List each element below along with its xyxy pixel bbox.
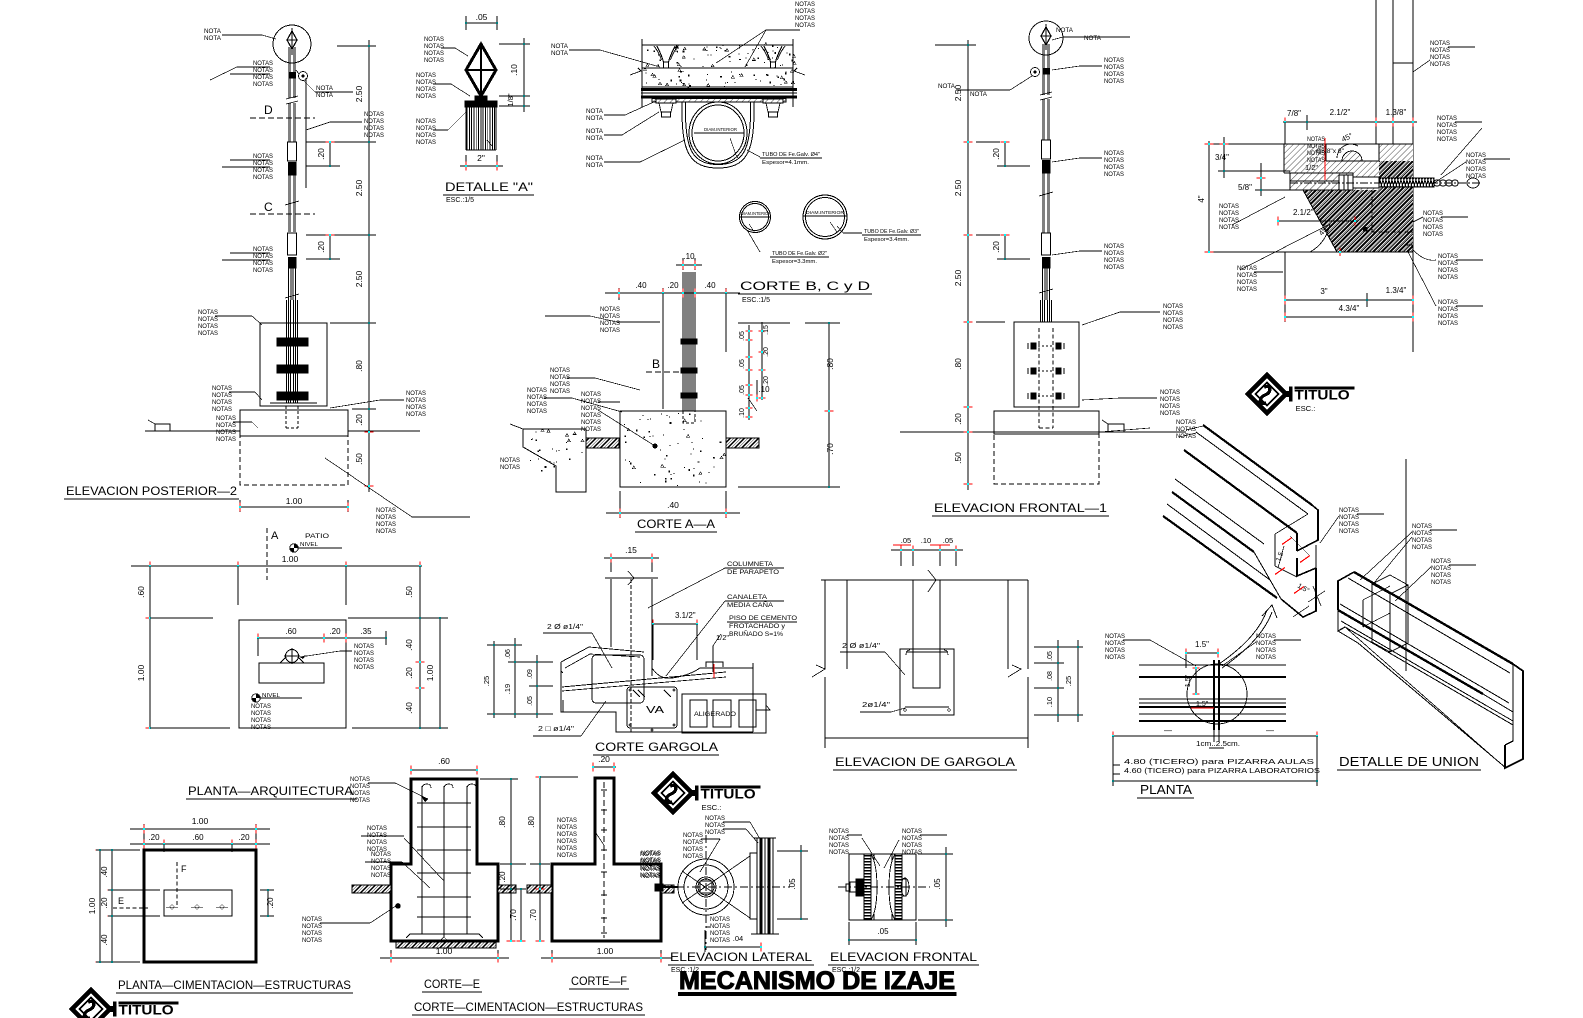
svg-text:1.3/8": 1.3/8" [1386,108,1407,117]
svg-text:NOTAS: NOTAS [371,872,391,879]
svg-text:NOTAS: NOTAS [1339,521,1359,528]
svg-text:NOTAS: NOTAS [902,849,922,856]
CORTE-E foundation section [391,779,498,941]
svg-text:2 Ø ø1/4": 2 Ø ø1/4" [547,622,583,631]
svg-text:VA: VA [646,705,664,716]
svg-text:NOTAS: NOTAS [416,93,436,100]
svg-text:2.50: 2.50 [953,179,963,196]
svg-text:NOTAS: NOTAS [1256,640,1276,647]
svg-text:NOTAS: NOTAS [302,923,322,930]
svg-text:NOTAS: NOTAS [1431,572,1451,579]
svg-text:DIAM.INTERIOR: DIAM.INTERIOR [741,211,771,216]
svg-text:NOTAS: NOTAS [416,125,436,132]
svg-text:NOTAS: NOTAS [1430,40,1450,47]
anchor detail top dims [1283,121,1417,123]
svg-text:TUBO DE Fe.Galv. Ø2": TUBO DE Fe.Galv. Ø2" [772,251,827,257]
svg-text:NOTAS: NOTAS [376,507,396,514]
svg-text:NOTAS: NOTAS [581,391,601,398]
anchor detail left dims [1208,141,1210,252]
svg-text:4": 4" [1197,195,1206,202]
svg-text:NOTAS: NOTAS [641,857,661,864]
svg-text:NOTAS: NOTAS [683,839,703,846]
svg-text:2ø1/4": 2ø1/4" [862,700,890,709]
svg-text:NOTAS: NOTAS [1431,558,1451,565]
svg-text:NOTAS: NOTAS [1105,633,1125,640]
svg-text:NOTAS: NOTAS [500,464,520,471]
CORTE-F foundation section [552,778,661,941]
svg-text:NOTAS: NOTAS [710,937,730,944]
svg-text:NOTAS: NOTAS [1237,265,1257,272]
svg-text:NOTAS: NOTAS [364,111,384,118]
svg-text:CORTE—CIMENTACION—ESTRUCTURAS: CORTE—CIMENTACION—ESTRUCTURAS [414,1002,643,1014]
svg-text:NOTAS: NOTAS [527,387,547,394]
svg-text:NOTA: NOTA [551,50,569,57]
ELEVACION LATERAL pulley [678,859,734,915]
svg-text:NOTAS: NOTAS [1237,286,1257,293]
svg-text:NOTAS: NOTAS [829,828,849,835]
svg-text:E: E [118,896,124,906]
svg-text:NOTAS: NOTAS [350,790,370,797]
svg-text:DIAM.INTERIOR: DIAM.INTERIOR [704,127,737,132]
svg-text:NOTAS: NOTAS [1339,514,1359,521]
svg-text:2 Ø ø1/4": 2 Ø ø1/4" [842,641,880,650]
svg-text:TITULO: TITULO [1295,388,1350,404]
svg-text:NOTAS: NOTAS [1438,267,1458,274]
svg-text:NOTAS: NOTAS [416,79,436,86]
svg-text:NOTAS: NOTAS [1163,324,1183,331]
svg-text:NOTAS: NOTAS [902,835,922,842]
svg-text:.20: .20 [329,627,341,636]
svg-text:NOTA: NOTA [1084,35,1102,42]
svg-text:.15: .15 [763,325,770,335]
svg-text:.20: .20 [498,871,507,883]
svg-text:NOTAS: NOTAS [829,842,849,849]
svg-text:NOTAS: NOTAS [1104,264,1124,271]
svg-text:.50: .50 [404,586,414,598]
svg-text:NOTAS: NOTAS [416,86,436,93]
svg-text:NOTA: NOTA [586,135,604,142]
svg-text:NOTA: NOTA [204,35,222,42]
ELEVACION FRONTAL pulley [849,854,916,920]
svg-text:.40: .40 [635,281,647,290]
svg-text:PLANTA: PLANTA [1140,782,1192,797]
svg-text:F: F [181,864,187,874]
svg-text:NOTAS: NOTAS [829,835,849,842]
svg-text:.20: .20 [238,833,250,842]
svg-text:NOTAS: NOTAS [253,267,273,274]
isometric channel upper [1203,425,1312,505]
svg-text:NOTAS: NOTAS [1160,389,1180,396]
svg-text:NOTAS: NOTAS [216,436,236,443]
svg-text:NOTAS: NOTAS [1160,396,1180,403]
svg-text:NOTAS: NOTAS [795,15,815,22]
svg-text:.05: .05 [527,696,534,706]
svg-text:NOTAS: NOTAS [1437,136,1457,143]
svg-text:.20: .20 [316,241,326,253]
svg-text:CORTE GARGOLA: CORTE GARGOLA [595,740,718,754]
svg-text:3": 3" [1320,287,1327,296]
svg-text:NOTAS: NOTAS [600,327,620,334]
svg-text:NOTAS: NOTAS [251,717,271,724]
svg-text:CORTE—F: CORTE—F [571,974,627,988]
svg-text:NOTAS: NOTAS [641,850,661,857]
svg-text:NOTAS: NOTAS [1423,210,1443,217]
svg-text:NOTAS: NOTAS [253,60,273,67]
svg-text:NOTAS: NOTAS [1412,530,1432,537]
svg-text:NOTAS: NOTAS [424,50,444,57]
svg-text:.08: .08 [1047,671,1054,681]
svg-text:TITULO: TITULO [701,787,756,803]
svg-text:NOTAS: NOTAS [1105,654,1125,661]
svg-text:.80: .80 [953,358,963,370]
svg-text:.05: .05 [901,536,911,545]
svg-text:.20: .20 [991,148,1001,160]
svg-text:NOTAS: NOTAS [376,521,396,528]
svg-text:ELEVACION POSTERIOR—2: ELEVACION POSTERIOR—2 [66,486,237,498]
svg-text:NOTAS: NOTAS [1104,250,1124,257]
svg-text:.80: .80 [497,816,507,828]
svg-text:.10: .10 [1045,697,1054,707]
svg-text:PATIO: PATIO [305,533,329,540]
svg-text:NOTAS: NOTAS [527,408,547,415]
pipe clamp wall section [739,46,740,47]
svg-text:NOTAS: NOTAS [1438,320,1458,327]
svg-text:.80: .80 [526,816,536,828]
svg-text:.10: .10 [739,408,746,418]
svg-text:NOTAS: NOTAS [902,842,922,849]
svg-text:.50: .50 [953,452,963,464]
svg-text:NOTAS: NOTAS [600,306,620,313]
anchor detail hatched block [1284,144,1413,252]
svg-text:.05: .05 [739,359,746,369]
svg-text:NOTAS: NOTAS [829,849,849,856]
ELEVACION DE GARGOLA [891,549,963,551]
svg-text:NOTAS: NOTAS [1438,313,1458,320]
svg-text:NOTAS: NOTAS [550,388,570,395]
svg-text:NOTAS: NOTAS [1105,640,1125,647]
anchor bolt ledge [1290,173,1353,190]
svg-text:NOTAS: NOTAS [406,411,426,418]
svg-text:NOTAS: NOTAS [641,873,661,880]
svg-text:NOTAS: NOTAS [581,398,601,405]
svg-text:.60: .60 [192,833,204,842]
svg-text:2.50: 2.50 [354,179,364,196]
svg-text:NOTAS: NOTAS [1423,231,1443,238]
svg-text:3/4": 3/4" [1215,153,1229,162]
svg-text:.20: .20 [991,241,1001,253]
svg-text:NIVEL: NIVEL [300,542,318,548]
svg-text:3.1/2": 3.1/2" [675,611,696,620]
svg-text:CORTE—E: CORTE—E [424,977,480,991]
svg-text:1.00: 1.00 [192,816,209,826]
svg-text:NOTAS: NOTAS [302,937,322,944]
svg-text:ELEVACION FRONTAL: ELEVACION FRONTAL [830,952,978,964]
svg-text:NOTAS: NOTAS [1437,115,1457,122]
svg-text:.05: .05 [1047,651,1054,661]
svg-text:NOTAS: NOTAS [251,703,271,710]
svg-text:NOTAS: NOTAS [795,1,815,8]
svg-text:NOTAS: NOTAS [1307,137,1325,143]
svg-text:5/8": 5/8" [1238,183,1252,192]
svg-text:NOTAS: NOTAS [253,67,273,74]
svg-text:NOTAS: NOTAS [1466,159,1486,166]
svg-text:2.50: 2.50 [953,269,963,286]
svg-text:.05: .05 [788,878,797,890]
svg-text:NOTAS: NOTAS [683,853,703,860]
svg-text:NOTAS: NOTAS [1466,152,1486,159]
svg-text:DETALLE "A": DETALLE "A" [445,180,533,194]
svg-text:BRUÑADO S=1%: BRUÑADO S=1% [729,629,783,638]
svg-text:.10: .10 [921,536,931,545]
svg-text:NOTAS: NOTAS [557,824,577,831]
svg-text:NOTAS: NOTAS [253,81,273,88]
dimension column frontal-1 [967,40,969,490]
ELEVACION FRONTAL-1 pole elevation [1029,21,1063,55]
svg-text:NOTAS: NOTAS [1104,257,1124,264]
svg-text:NOTAS: NOTAS [1219,203,1239,210]
svg-text:NOTAS: NOTAS [1438,274,1458,281]
svg-text:NOTAS: NOTAS [527,394,547,401]
svg-text:NOTA: NOTA [938,83,956,90]
svg-text:NOTAS: NOTAS [1438,253,1458,260]
svg-text:NOTAS: NOTAS [350,783,370,790]
svg-text:NOTAS: NOTAS [416,132,436,139]
svg-text:COLUMNETA: COLUMNETA [727,561,774,568]
svg-text:NOTAS: NOTAS [253,174,273,181]
svg-text:.09: .09 [527,669,534,679]
svg-text:NOTAS: NOTAS [212,406,232,413]
svg-text:7/8": 7/8" [1287,109,1301,118]
svg-text:NOTAS: NOTAS [1430,47,1450,54]
svg-text:TITULO: TITULO [119,1003,174,1018]
svg-text:1.5": 1.5" [1195,640,1209,649]
svg-text:NOTAS: NOTAS [1412,537,1432,544]
svg-text:NOTA: NOTA [1056,27,1074,34]
svg-text:.20: .20 [354,414,364,426]
svg-text:1/2": 1/2" [1305,163,1318,172]
svg-text:PLANTA—CIMENTACION—ESTRUCTURAS: PLANTA—CIMENTACION—ESTRUCTURAS [118,980,351,992]
svg-text:ELEVACION LATERAL: ELEVACION LATERAL [670,952,813,964]
svg-text:NOTAS: NOTAS [1438,299,1458,306]
svg-text:NOTAS: NOTAS [600,320,620,327]
svg-text:NOTA: NOTA [551,43,569,50]
svg-text:4.3/4": 4.3/4" [1339,304,1360,313]
svg-text:.05: .05 [877,927,889,936]
svg-text:NOTAS: NOTAS [416,139,436,146]
TITULO logo (middle bottom) [654,774,760,812]
svg-text:NOTAS: NOTAS [1104,71,1124,78]
svg-text:.40: .40 [404,702,414,714]
svg-text:.05: .05 [739,331,746,341]
svg-text:NOTAS: NOTAS [1219,217,1239,224]
svg-text:.04: .04 [733,934,743,943]
svg-text:NOTAS: NOTAS [1256,633,1276,640]
svg-text:.15: .15 [625,545,637,555]
svg-text:NOTAS: NOTAS [253,260,273,267]
svg-text:NOTAS: NOTAS [500,457,520,464]
svg-text:NOTAS: NOTAS [550,381,570,388]
svg-text:.80: .80 [354,360,364,372]
svg-text:NOTAS: NOTAS [1176,426,1196,433]
svg-text:.50: .50 [354,453,364,465]
svg-text:Espesor=3.3mm.: Espesor=3.3mm. [772,259,817,265]
CORTE A-A [682,258,684,270]
anchor detail bottom dims [1284,252,1286,322]
svg-text:NOTAS: NOTAS [557,831,577,838]
svg-text:NOTAS: NOTAS [710,923,730,930]
svg-text:NOTAS: NOTAS [367,839,387,846]
svg-text:.20: .20 [266,897,275,909]
svg-text:NOTAS: NOTAS [364,132,384,139]
svg-text:NOTAS: NOTAS [641,866,661,873]
svg-text:.40: .40 [404,639,414,651]
svg-text:NOTAS: NOTAS [198,309,218,316]
svg-text:NOTAS: NOTAS [251,724,271,731]
svg-text:NOTAS: NOTAS [424,43,444,50]
svg-text:.25: .25 [1064,676,1073,686]
svg-text:NOTAS: NOTAS [795,8,815,15]
svg-text:NOTAS: NOTAS [1104,243,1124,250]
svg-text:.20: .20 [100,897,109,909]
svg-text:FROTACHADO y: FROTACHADO y [729,623,786,630]
svg-text:ELEVACION FRONTAL—1: ELEVACION FRONTAL—1 [934,503,1107,515]
svg-text:NOTAS: NOTAS [198,316,218,323]
svg-text:NOTAS: NOTAS [216,422,236,429]
svg-text:NOTAS: NOTAS [795,22,815,29]
svg-text:NOTAS: NOTAS [354,664,374,671]
svg-text:1.00: 1.00 [436,946,453,956]
svg-text:NOTAS: NOTAS [1466,166,1486,173]
svg-text:NOTAS: NOTAS [212,392,232,399]
gargola left dims [493,641,495,718]
svg-text:NOTAS: NOTAS [371,851,391,858]
svg-text:1.00: 1.00 [597,946,614,956]
svg-text:NOTAS: NOTAS [1104,164,1124,171]
svg-text:NOTAS: NOTAS [1431,565,1451,572]
svg-text:NOTAS: NOTAS [581,405,601,412]
svg-text:NOTAS: NOTAS [1339,507,1359,514]
svg-text:NOTAS: NOTAS [406,397,426,404]
svg-text:NOTAS: NOTAS [251,710,271,717]
svg-text:.70: .70 [528,909,538,921]
svg-text:D: D [264,103,273,117]
svg-text:NOTAS: NOTAS [212,399,232,406]
svg-text:NOTAS: NOTAS [416,72,436,79]
svg-text:.19: .19 [503,684,512,694]
svg-text:NOTA: NOTA [316,85,334,92]
svg-text:NOTAS: NOTAS [683,832,703,839]
svg-text:NOTAS: NOTAS [1423,224,1443,231]
svg-text:1/2": 1/2" [716,633,729,642]
svg-text:.20: .20 [404,667,414,679]
svg-text:NOTAS: NOTAS [1237,272,1257,279]
svg-text:1.00: 1.00 [425,664,435,681]
TITULO logo (bottom left corner) [72,990,178,1018]
svg-text:NOTAS: NOTAS [1176,419,1196,426]
sheet border line [1412,0,1414,352]
svg-text:.20: .20 [148,833,160,842]
svg-text:NOTAS: NOTAS [350,776,370,783]
svg-text:NOTAS: NOTAS [1237,279,1257,286]
pipe TUBO 4in [689,102,747,164]
svg-text:NOTAS: NOTAS [1339,528,1359,535]
svg-text:NOTAS: NOTAS [1160,403,1180,410]
svg-text:1.00: 1.00 [282,554,299,564]
svg-text:.40: .40 [100,866,109,878]
svg-text:NOTAS: NOTAS [367,825,387,832]
svg-text:.35: .35 [360,627,372,636]
svg-text:NOTAS: NOTAS [710,916,730,923]
svg-text:2.1/2": 2.1/2" [1293,208,1314,217]
svg-text:.70: .70 [508,909,518,921]
dimension column posterior [368,40,370,492]
svg-text:Espesor=3.4mm.: Espesor=3.4mm. [864,237,909,243]
svg-text:B: B [652,357,660,371]
svg-text:C: C [264,200,273,214]
svg-text:NOTAS: NOTAS [1104,157,1124,164]
svg-text:.60: .60 [136,586,146,598]
svg-text:NOTAS: NOTAS [1437,122,1457,129]
svg-text:NOTAS: NOTAS [253,246,273,253]
svg-text:NOTAS: NOTAS [1466,173,1486,180]
svg-text:NOTA: NOTA [316,92,334,99]
svg-text:NOTAS: NOTAS [1430,54,1450,61]
svg-text:4.60 (TICERO) para PIZARRA: 4.60 (TICERO) para PIZARRA LABORATORIOS [1124,766,1320,775]
svg-text:NOTAS: NOTAS [1104,78,1124,85]
svg-text:CORTE B, C y D: CORTE B, C y D [740,279,870,293]
svg-text:NOTAS: NOTAS [367,832,387,839]
svg-text:NOTAS: NOTAS [581,419,601,426]
svg-text:NOTAS: NOTAS [1105,647,1125,654]
svg-text:.20: .20 [667,281,679,290]
svg-text:CORTE A—A: CORTE A—A [637,517,715,531]
svg-text:NOTAS: NOTAS [1160,410,1180,417]
svg-text:.05: .05 [739,385,746,395]
svg-text:NOTAS: NOTAS [1104,150,1124,157]
svg-text:NOTAS: NOTAS [253,160,273,167]
svg-text:ESC.:: ESC.: [702,803,722,812]
svg-text:.40: .40 [667,500,679,510]
svg-text:NOTA: NOTA [586,115,604,122]
svg-text:ESC.:1/5: ESC.:1/5 [742,297,770,304]
svg-text:NOTAS: NOTAS [1163,317,1183,324]
svg-text:.70: .70 [825,443,835,455]
svg-text:NOTAS: NOTAS [350,797,370,804]
svg-text:MECANISMO DE IZAJE: MECANISMO DE IZAJE [679,967,955,995]
svg-text:NOTAS: NOTAS [216,415,236,422]
svg-text:NOTAS: NOTAS [1430,61,1450,68]
svg-text:2.1/2": 2.1/2" [1330,108,1351,117]
svg-text:NOTAS: NOTAS [364,118,384,125]
svg-text:4.80 (TICERO) para PIZARRA: 4.80 (TICERO) para PIZARRA AULAS [1124,757,1314,766]
svg-text:NOTAS: NOTAS [424,57,444,64]
pipe section small [740,202,771,233]
svg-text:1/8": 1/8" [506,93,515,106]
svg-text:.40: .40 [100,934,109,946]
svg-text:.05: .05 [476,12,488,22]
svg-text:1.00: 1.00 [87,897,97,914]
svg-text:NOTAS: NOTAS [364,125,384,132]
svg-text:DIAM.INTERIOR: DIAM.INTERIOR [806,210,845,215]
svg-text:NOTAS: NOTAS [557,845,577,852]
svg-text:NOTAS: NOTAS [550,367,570,374]
svg-text:NOTAS: NOTAS [1256,654,1276,661]
svg-text:NOTAS: NOTAS [1163,310,1183,317]
svg-text:2.50: 2.50 [354,270,364,287]
svg-text:NOTAS: NOTAS [710,930,730,937]
svg-text:ALIGERADO: ALIGERADO [694,711,736,718]
left curb section [523,429,586,492]
